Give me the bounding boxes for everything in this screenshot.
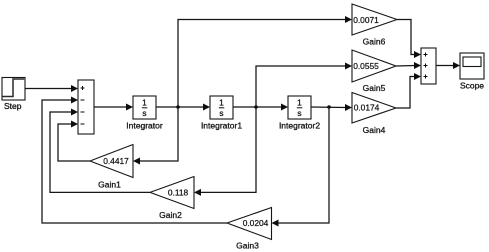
svg-text:0.118: 0.118 [168,188,189,198]
svg-text:Gain6: Gain6 [363,37,386,47]
svg-text:Integrator: Integrator [126,121,163,131]
svg-text:s: s [297,108,301,118]
svg-text:1: 1 [219,98,224,108]
svg-text:0.0204: 0.0204 [243,218,269,228]
svg-text:0.4417: 0.4417 [103,156,129,166]
svg-text:Gain2: Gain2 [159,210,182,220]
svg-text:s: s [219,108,223,118]
svg-text:s: s [142,108,146,118]
svg-text:1: 1 [142,98,147,108]
svg-text:Integrator1: Integrator1 [201,121,242,131]
svg-text:1: 1 [297,98,302,108]
svg-text:0.0071: 0.0071 [353,15,379,25]
svg-text:Gain5: Gain5 [363,83,386,93]
svg-text:Gain1: Gain1 [98,180,121,190]
svg-text:Scope: Scope [460,81,484,91]
svg-text:Integrator2: Integrator2 [279,121,320,131]
svg-text:Gain4: Gain4 [363,125,386,135]
svg-text:0.0555: 0.0555 [353,61,379,71]
svg-text:Step: Step [4,101,22,111]
svg-text:0.0174: 0.0174 [354,103,380,113]
svg-text:Gain3: Gain3 [236,241,259,251]
